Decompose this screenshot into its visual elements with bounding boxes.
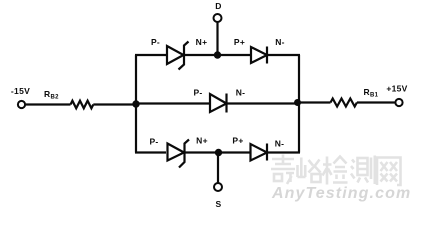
diode bottom-right	[251, 144, 268, 161]
svg-text:N-: N-	[275, 139, 285, 149]
watermark 嘉峪检测网	[271, 155, 401, 186]
svg-text:+15V: +15V	[386, 84, 407, 94]
wire middle branch right	[227, 102, 300, 104]
wire bottom branch right	[267, 151, 300, 153]
wire left terminal to resistor RB2	[26, 103, 71, 105]
svg-text:P-: P-	[193, 88, 202, 98]
svg-text:RB1: RB1	[364, 87, 379, 99]
resistor RB2	[71, 101, 94, 109]
wire node D to terminal D	[216, 22, 218, 55]
wire node S to diode	[219, 151, 251, 153]
wire resistor RB2 to node A	[93, 103, 136, 105]
terminal -15V	[18, 101, 25, 108]
wire middle branch left	[136, 102, 210, 104]
svg-text:RB2: RB2	[44, 89, 59, 101]
svg-text:-15V: -15V	[11, 86, 30, 96]
wire top branch left	[135, 54, 167, 56]
svg-text:P+: P+	[234, 37, 245, 47]
terminal S	[214, 183, 222, 191]
svg-text:P-: P-	[149, 137, 158, 147]
svg-text:N+: N+	[196, 37, 208, 47]
diode middle	[210, 94, 227, 113]
wire right rail	[298, 55, 300, 153]
wire bottom branch left	[135, 151, 166, 153]
wire zener to node D	[184, 54, 218, 56]
svg-text:P-: P-	[151, 37, 160, 47]
zener diode bottom-left	[168, 140, 190, 168]
node B junction (right rail)	[294, 99, 301, 106]
wire left rail	[135, 55, 137, 153]
svg-text:N+: N+	[196, 136, 208, 146]
diode top-right	[251, 47, 267, 64]
node S junction	[215, 149, 222, 156]
svg-text:AnyTesting.com: AnyTesting.com	[271, 185, 411, 202]
wire zener to node S	[185, 151, 220, 153]
terminal D	[214, 14, 222, 22]
wire top branch right	[267, 54, 300, 56]
node A junction (left rail)	[132, 100, 139, 107]
wire node B to resistor RB1	[299, 101, 331, 103]
svg-text:N-: N-	[275, 37, 285, 47]
node D junction	[214, 51, 221, 58]
svg-text:D: D	[215, 1, 221, 11]
svg-text:S: S	[216, 199, 222, 209]
terminal +15V	[395, 99, 402, 106]
resistor RB1	[331, 99, 357, 107]
zener diode top-left	[167, 42, 189, 70]
svg-text:P+: P+	[232, 136, 243, 146]
svg-text:N-: N-	[236, 88, 246, 98]
wire resistor RB1 to terminal	[357, 101, 395, 103]
wire node D to diode	[218, 54, 252, 56]
wire node S to terminal S	[217, 153, 219, 184]
